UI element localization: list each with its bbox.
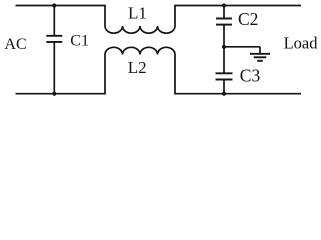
wire C3 bottom lead xyxy=(223,80,225,94)
wire C1 bottom lead xyxy=(53,42,55,94)
inductor L2 xyxy=(105,47,175,93)
svg-text:C1: C1 xyxy=(70,32,89,49)
svg-text:C3: C3 xyxy=(240,65,261,85)
wire bottom rail left segment xyxy=(16,93,106,95)
node C1 top junction xyxy=(52,3,56,7)
wire ground stem xyxy=(259,47,261,54)
capacitor C1 xyxy=(46,36,62,42)
ground xyxy=(250,54,270,61)
node C3 bottom junction xyxy=(222,92,226,96)
capacitor C2 xyxy=(216,19,232,25)
wire C2 top lead xyxy=(223,6,225,19)
svg-text:L1: L1 xyxy=(128,3,147,22)
node A junction xyxy=(222,45,226,49)
capacitor C3 xyxy=(216,73,233,79)
wire C2 to node A xyxy=(223,25,225,47)
svg-text:L2: L2 xyxy=(128,58,147,77)
wire node A to C3 xyxy=(223,47,225,74)
svg-text:C2: C2 xyxy=(238,9,258,29)
node C1 bottom junction xyxy=(52,92,56,96)
svg-text:AC: AC xyxy=(4,36,26,53)
inductor L1 xyxy=(105,6,175,34)
wire node A to ground xyxy=(224,46,260,48)
node C2 top junction xyxy=(222,3,226,7)
wire bottom rail right segment xyxy=(174,93,301,95)
wire C1 top lead xyxy=(53,6,55,36)
svg-text:Load: Load xyxy=(284,34,319,53)
wire top rail right segment xyxy=(174,5,301,7)
wire top rail left segment xyxy=(16,5,106,7)
